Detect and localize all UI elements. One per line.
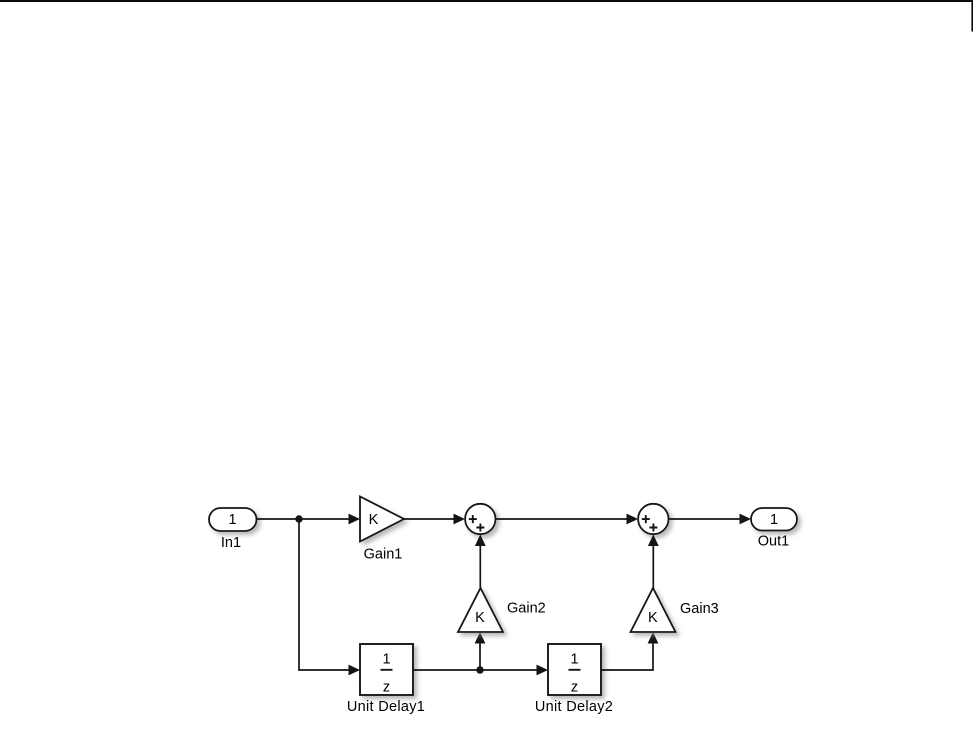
wire Sum2 to Out1	[669, 514, 752, 525]
unit delay block Unit Delay2	[548, 644, 601, 695]
svg-text:In1: In1	[221, 535, 241, 551]
svg-text:z: z	[571, 679, 578, 695]
wire Unit Delay1 to node B	[413, 669, 480, 671]
node A junction	[295, 515, 302, 522]
wire node B to Unit Delay2	[480, 665, 548, 676]
output port Out1	[751, 508, 797, 531]
wire Gain2 to Sum1	[475, 535, 486, 589]
svg-text:Out1: Out1	[758, 534, 789, 550]
page right border segment	[971, 0, 973, 32]
gain block Gain3	[631, 588, 676, 632]
wire Sum1 to Sum2	[496, 514, 639, 525]
svg-text:1: 1	[382, 652, 390, 668]
svg-text:1: 1	[770, 512, 778, 528]
svg-text:1: 1	[570, 652, 578, 668]
wire node B up to Gain2	[475, 632, 486, 670]
wire In1 to node A	[257, 518, 300, 520]
wire Gain1 to Sum1	[404, 514, 465, 525]
wire Unit Delay2 up to Gain3	[601, 632, 658, 670]
input port In1	[209, 508, 257, 531]
svg-text:Gain1: Gain1	[364, 546, 403, 562]
svg-text:K: K	[369, 512, 379, 528]
node B junction	[476, 666, 483, 673]
svg-text:Gain2: Gain2	[507, 600, 546, 616]
wire node A to Gain1	[299, 514, 360, 525]
svg-text:1: 1	[228, 512, 236, 528]
wire node A down to Unit Delay1	[299, 519, 360, 675]
page top border	[0, 0, 973, 2]
sum block Sum2	[638, 504, 668, 534]
svg-text:Gain3: Gain3	[680, 601, 719, 617]
svg-text:K: K	[648, 610, 658, 626]
unit delay block Unit Delay1	[360, 644, 413, 695]
svg-text:Unit Delay2: Unit Delay2	[535, 699, 613, 715]
svg-text:Unit Delay1: Unit Delay1	[347, 699, 425, 715]
gain block Gain1	[360, 497, 404, 542]
sum block Sum1	[465, 504, 495, 534]
wire Gain3 to Sum2	[648, 535, 659, 589]
gain block Gain2	[458, 588, 503, 632]
svg-text:K: K	[475, 610, 485, 626]
svg-text:z: z	[383, 679, 390, 695]
